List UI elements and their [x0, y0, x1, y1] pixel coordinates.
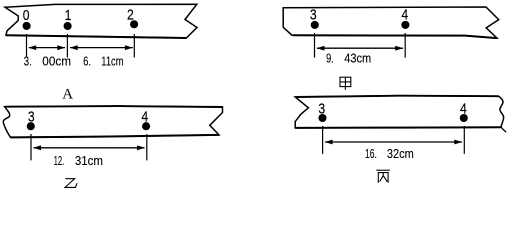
tape jia tick under dot 3	[314, 33, 316, 58]
svg-text:3: 3	[318, 101, 325, 117]
svg-text:00cm: 00cm	[42, 54, 71, 69]
tape yi top edge emphasis	[5, 105, 223, 108]
svg-text:0: 0	[23, 8, 30, 24]
svg-text:4: 4	[401, 7, 408, 23]
tape A arrow 1-2	[70, 45, 133, 50]
tape A bottom edge emphasis	[6, 35, 186, 38]
tape yi dot 4	[142, 122, 150, 130]
tape A tick under dot 2	[133, 34, 135, 58]
tape jia dot 4	[401, 21, 409, 29]
label bing (CJK drawn)	[376, 170, 390, 183]
svg-text:32cm: 32cm	[387, 146, 414, 161]
svg-text:2: 2	[127, 8, 134, 24]
svg-text:3: 3	[28, 109, 35, 125]
tape bing bottom edge emphasis	[295, 126, 501, 129]
label jia (CJK drawn)	[340, 77, 351, 90]
tape yi bottom edge emphasis	[11, 135, 220, 138]
label yi (CJK drawn)	[65, 179, 77, 188]
tape bing tick under dot 3	[322, 126, 324, 154]
svg-text:1: 1	[65, 8, 72, 24]
tape yi tick under dot 4	[146, 134, 148, 160]
svg-text:4: 4	[460, 101, 467, 117]
tape A dot 0	[23, 22, 31, 30]
svg-text:3.: 3.	[24, 54, 32, 69]
tape jia bottom edge emphasis	[293, 35, 497, 38]
tape yi tick under dot 3	[30, 134, 32, 160]
tape A dot 1	[64, 22, 72, 30]
tape yi outline	[3, 106, 222, 137]
tape bing arrow 3-4	[325, 140, 463, 145]
tape jia outline	[283, 7, 499, 38]
svg-text:9.: 9.	[326, 51, 334, 66]
tape yi arrow 3-4	[33, 145, 145, 150]
tape A arrow 0-1	[28, 45, 65, 50]
tape A tick under dot 1	[66, 34, 68, 58]
svg-text:4: 4	[141, 109, 148, 125]
tape bing outline	[295, 96, 503, 128]
tape bing dot 3	[318, 114, 326, 122]
tape bing top edge emphasis	[295, 96, 498, 97]
svg-text:3: 3	[310, 7, 317, 23]
svg-text:43cm: 43cm	[344, 51, 371, 66]
svg-text:12.: 12.	[54, 153, 65, 168]
tape bing tick under dot 4	[463, 126, 465, 154]
tape A dot 2	[130, 20, 138, 28]
tape A tick under dot 0	[26, 34, 28, 58]
tape bing torn tail	[501, 127, 506, 132]
svg-text:A: A	[62, 87, 73, 103]
svg-text:31cm: 31cm	[75, 153, 103, 168]
svg-text:6.: 6.	[83, 54, 91, 69]
svg-text:16.: 16.	[365, 146, 377, 161]
tape A outline	[5, 4, 197, 38]
svg-text:11cm: 11cm	[101, 54, 123, 69]
tape yi dot 3	[27, 122, 35, 130]
tape jia tick under dot 4	[404, 33, 406, 58]
tape bing dot 4	[460, 114, 468, 122]
tape jia dot 3	[311, 21, 319, 29]
tape jia arrow 3-4	[317, 46, 404, 51]
